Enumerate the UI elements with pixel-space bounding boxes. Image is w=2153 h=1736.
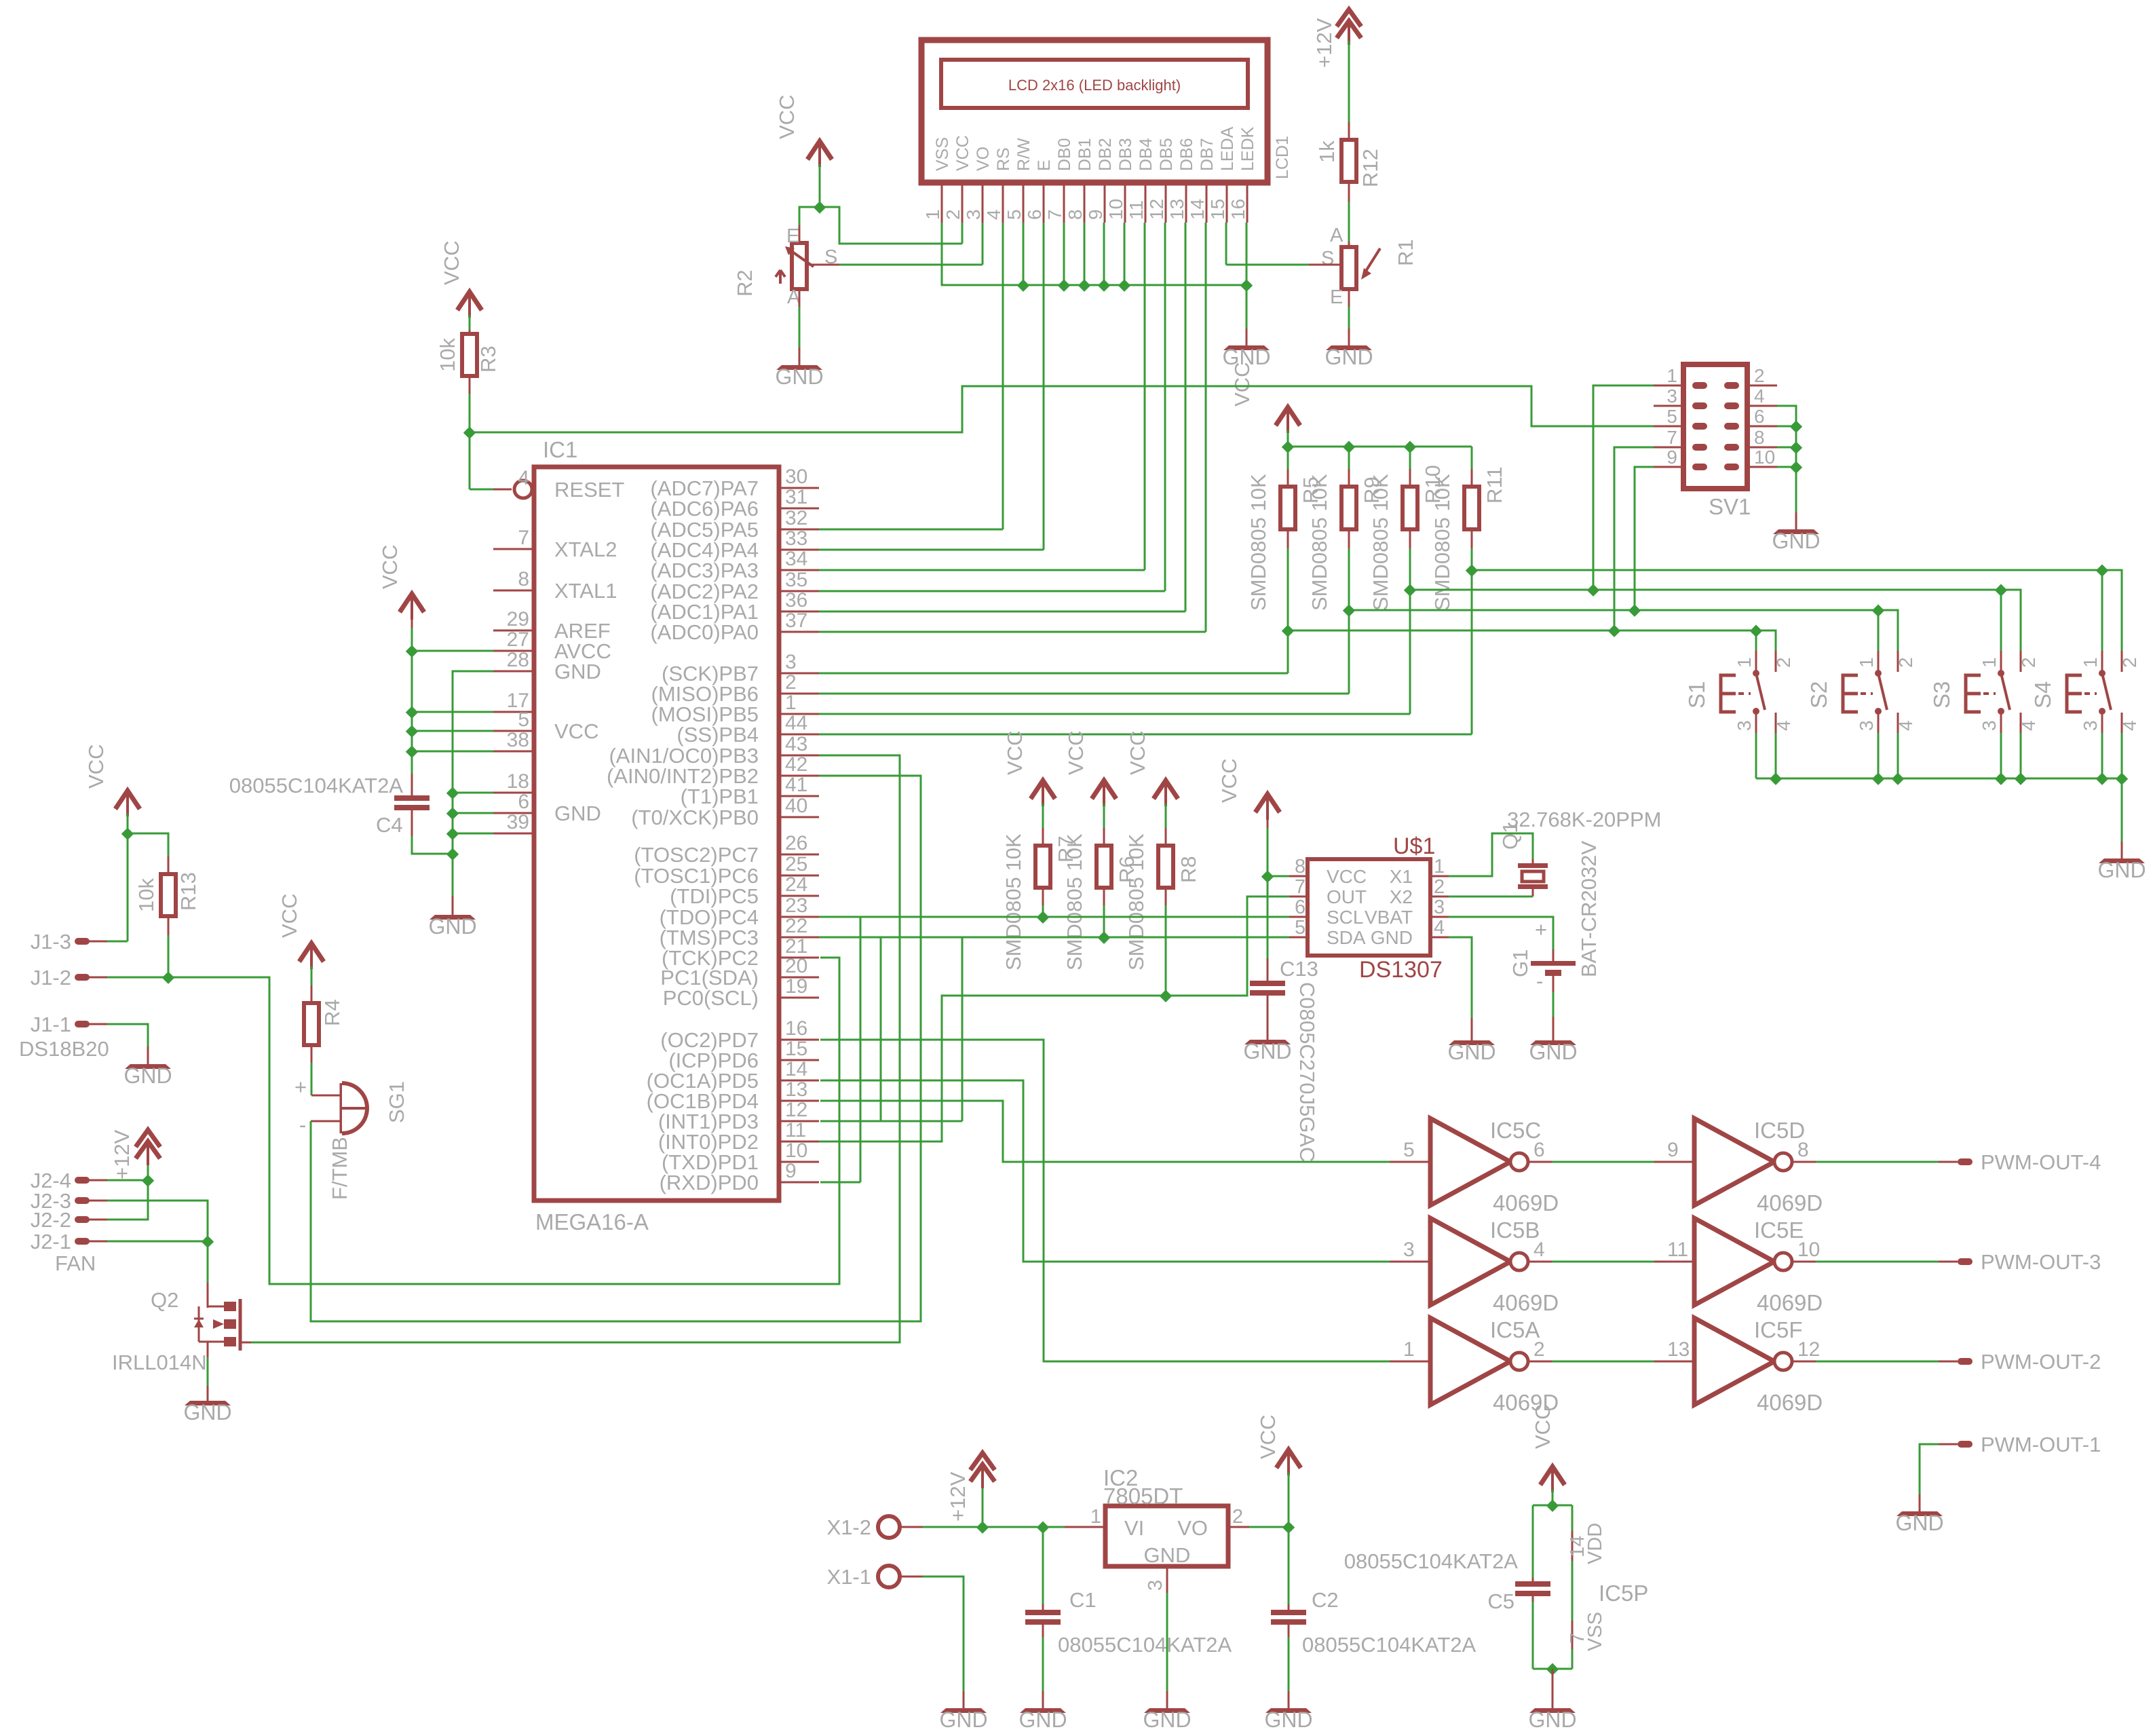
svg-text:GND: GND: [1144, 1543, 1191, 1567]
svg-text:3: 3: [1856, 720, 1877, 731]
svg-text:S4: S4: [2030, 681, 2055, 709]
svg-text:3: 3: [1403, 1239, 1415, 1261]
svg-text:4069D: 4069D: [1493, 1290, 1559, 1315]
svg-text:1: 1: [2080, 657, 2101, 668]
svg-text:DB3: DB3: [1116, 138, 1135, 171]
svg-text:24: 24: [785, 873, 807, 896]
svg-text:GND: GND: [1772, 529, 1820, 553]
svg-text:DB7: DB7: [1198, 138, 1217, 171]
svg-text:X1-2: X1-2: [827, 1515, 871, 1539]
svg-text:9: 9: [1667, 1139, 1679, 1161]
svg-text:1: 1: [1090, 1506, 1101, 1528]
svg-text:12: 12: [785, 1099, 807, 1121]
svg-text:6: 6: [1024, 209, 1045, 220]
svg-text:IRLL014N: IRLL014N: [112, 1351, 207, 1374]
svg-text:SDA: SDA: [1327, 927, 1366, 948]
svg-text:J1-2: J1-2: [31, 966, 71, 989]
svg-text:4: 4: [1434, 917, 1445, 939]
svg-text:Q2: Q2: [151, 1288, 178, 1312]
svg-text:8: 8: [518, 568, 529, 590]
svg-text:R3: R3: [476, 345, 500, 373]
svg-text:X1-1: X1-1: [827, 1565, 871, 1589]
svg-text:R11: R11: [1483, 466, 1506, 504]
svg-text:(TOSC2)PC7: (TOSC2)PC7: [634, 843, 759, 867]
svg-text:E: E: [786, 225, 799, 247]
svg-text:GND: GND: [939, 1707, 987, 1732]
svg-text:44: 44: [785, 712, 807, 734]
svg-text:9: 9: [1666, 447, 1677, 468]
svg-text:41: 41: [785, 774, 807, 796]
svg-text:E: E: [1330, 286, 1343, 308]
svg-text:5: 5: [1004, 209, 1025, 220]
svg-text:C5: C5: [1487, 1589, 1514, 1613]
svg-text:11: 11: [785, 1119, 806, 1141]
svg-text:GND: GND: [123, 1063, 172, 1088]
svg-text:7: 7: [1295, 876, 1306, 898]
svg-text:-: -: [299, 1113, 306, 1137]
svg-text:SMD0805 10K: SMD0805 10K: [1308, 474, 1331, 611]
svg-text:RESET: RESET: [554, 478, 624, 502]
svg-text:VBAT: VBAT: [1365, 907, 1413, 928]
svg-text:FAN: FAN: [55, 1251, 96, 1275]
svg-text:VCC: VCC: [378, 545, 402, 589]
svg-text:OUT: OUT: [1327, 886, 1367, 907]
svg-text:5: 5: [1295, 917, 1306, 939]
svg-text:+12V: +12V: [1312, 18, 1336, 68]
svg-text:28: 28: [507, 649, 529, 671]
svg-text:PWM-OUT-1: PWM-OUT-1: [1981, 1433, 2101, 1456]
svg-text:1: 1: [922, 209, 943, 220]
svg-text:23: 23: [785, 894, 807, 917]
svg-text:GND: GND: [1447, 1040, 1495, 1064]
svg-text:42: 42: [785, 753, 807, 776]
svg-text:25: 25: [785, 853, 807, 875]
svg-text:LEDK: LEDK: [1238, 126, 1257, 171]
svg-text:37: 37: [785, 609, 807, 632]
svg-text:DB2: DB2: [1096, 138, 1115, 171]
svg-text:S2: S2: [1806, 681, 1831, 709]
svg-text:4: 4: [2018, 720, 2039, 731]
svg-text:1: 1: [785, 692, 797, 714]
svg-text:SCL: SCL: [1327, 907, 1363, 928]
svg-text:6: 6: [1295, 897, 1306, 918]
svg-text:(T0/XCK)PB0: (T0/XCK)PB0: [631, 806, 759, 829]
svg-text:18: 18: [507, 770, 529, 793]
svg-text:(TDI)PC5: (TDI)PC5: [670, 884, 759, 908]
svg-text:3: 3: [1434, 897, 1445, 918]
svg-text:9: 9: [1085, 209, 1106, 220]
svg-text:DS18B20: DS18B20: [19, 1037, 109, 1061]
svg-text:IC5B: IC5B: [1490, 1218, 1540, 1243]
svg-text:J1-1: J1-1: [31, 1013, 71, 1036]
svg-text:8: 8: [1754, 427, 1765, 448]
svg-text:C13: C13: [1280, 957, 1318, 981]
svg-text:S1: S1: [1684, 681, 1709, 709]
svg-text:GND: GND: [1243, 1039, 1291, 1063]
svg-text:4069D: 4069D: [1757, 1190, 1823, 1215]
svg-text:VCC: VCC: [1327, 866, 1367, 887]
svg-text:3: 3: [1145, 1580, 1166, 1591]
svg-text:GND: GND: [1264, 1707, 1312, 1732]
svg-text:16: 16: [785, 1017, 807, 1040]
svg-text:VCC: VCC: [953, 135, 972, 171]
svg-text:R8: R8: [1177, 856, 1200, 883]
svg-text:DB1: DB1: [1075, 138, 1094, 171]
svg-text:1k: 1k: [1315, 140, 1339, 163]
svg-text:4: 4: [1895, 720, 1916, 731]
svg-text:15: 15: [1207, 199, 1228, 220]
svg-text:36: 36: [785, 589, 807, 611]
svg-text:7805DT: 7805DT: [1103, 1484, 1183, 1509]
svg-text:31: 31: [785, 486, 807, 508]
svg-text:SG1: SG1: [385, 1081, 408, 1123]
svg-text:3: 3: [1734, 720, 1755, 731]
svg-text:VI: VI: [1124, 1516, 1144, 1540]
svg-text:LCD 2x16 (LED backlight): LCD 2x16 (LED backlight): [1008, 77, 1181, 94]
svg-text:38: 38: [507, 729, 529, 751]
svg-text:2: 2: [1232, 1506, 1243, 1528]
svg-text:J1-3: J1-3: [31, 930, 71, 954]
svg-text:GND: GND: [1018, 1707, 1067, 1732]
svg-text:R7: R7: [1054, 835, 1078, 863]
svg-text:30: 30: [785, 466, 807, 488]
svg-text:2: 2: [942, 209, 964, 220]
svg-text:GND: GND: [1371, 927, 1413, 948]
svg-text:R/W: R/W: [1014, 138, 1033, 171]
svg-text:15: 15: [785, 1038, 807, 1060]
svg-text:3: 3: [2080, 720, 2101, 731]
svg-text:3: 3: [1666, 385, 1677, 407]
svg-text:GND: GND: [1528, 1707, 1576, 1732]
svg-text:14: 14: [785, 1058, 807, 1080]
svg-text:IC5D: IC5D: [1754, 1118, 1805, 1143]
svg-text:+12V: +12V: [946, 1471, 970, 1522]
svg-text:3: 3: [785, 651, 797, 673]
svg-text:VSS: VSS: [933, 137, 952, 171]
svg-text:XTAL1: XTAL1: [554, 579, 617, 603]
svg-text:GND: GND: [183, 1400, 231, 1424]
svg-text:SMD0805 10K: SMD0805 10K: [1246, 474, 1270, 611]
svg-text:GND: GND: [1895, 1511, 1943, 1535]
svg-text:DB5: DB5: [1157, 138, 1176, 171]
svg-text:IC5C: IC5C: [1490, 1118, 1541, 1143]
svg-text:26: 26: [785, 832, 807, 854]
svg-text:DB0: DB0: [1055, 138, 1074, 171]
svg-text:U$1: U$1: [1393, 833, 1435, 859]
svg-text:4: 4: [983, 209, 1004, 220]
svg-text:20: 20: [785, 955, 807, 977]
svg-text:1: 1: [1666, 365, 1677, 386]
svg-text:VO: VO: [974, 147, 993, 171]
svg-text:2: 2: [2018, 657, 2039, 668]
svg-text:+: +: [1535, 918, 1547, 941]
svg-text:19: 19: [785, 975, 807, 998]
svg-text:-: -: [1536, 969, 1543, 993]
svg-text:4069D: 4069D: [1757, 1390, 1823, 1415]
svg-text:VCC: VCC: [1003, 731, 1027, 775]
svg-text:VCC: VCC: [1126, 731, 1149, 775]
svg-text:10: 10: [785, 1139, 807, 1162]
svg-text:10k: 10k: [134, 878, 158, 912]
svg-text:PWM-OUT-2: PWM-OUT-2: [1981, 1350, 2101, 1374]
svg-text:4: 4: [518, 467, 529, 489]
svg-text:R2: R2: [733, 269, 757, 297]
svg-text:C0805C270J5GAC: C0805C270J5GAC: [1295, 982, 1319, 1162]
svg-text:VCC: VCC: [278, 894, 301, 938]
svg-text:32.768K-20PPM: 32.768K-20PPM: [1507, 808, 1661, 831]
svg-text:40: 40: [785, 795, 807, 817]
svg-text:4069D: 4069D: [1493, 1190, 1559, 1215]
svg-text:VCC: VCC: [775, 95, 799, 139]
svg-text:SMD0805 10K: SMD0805 10K: [1124, 833, 1148, 970]
svg-text:S: S: [1321, 248, 1334, 269]
svg-text:27: 27: [507, 628, 529, 651]
svg-text:2: 2: [1754, 365, 1765, 386]
svg-text:X2: X2: [1390, 886, 1413, 907]
svg-text:13: 13: [1166, 199, 1187, 220]
svg-text:R1: R1: [1394, 239, 1417, 266]
svg-text:22: 22: [785, 915, 807, 937]
svg-text:VCC: VCC: [1230, 362, 1254, 407]
svg-text:R12: R12: [1358, 149, 1382, 187]
svg-text:S3: S3: [1929, 681, 1954, 709]
svg-text:XTAL2: XTAL2: [554, 537, 617, 561]
svg-text:BAT-CR2032V: BAT-CR2032V: [1577, 841, 1601, 977]
svg-text:(ADC3)PA3: (ADC3)PA3: [650, 559, 759, 582]
svg-text:MEGA16-A: MEGA16-A: [535, 1209, 649, 1234]
svg-text:29: 29: [507, 608, 529, 630]
svg-text:34: 34: [785, 548, 807, 570]
svg-text:43: 43: [785, 733, 807, 755]
svg-text:10: 10: [1754, 447, 1775, 468]
svg-text:LEDA: LEDA: [1218, 126, 1237, 171]
svg-text:3: 3: [1979, 720, 2000, 731]
svg-text:GND: GND: [554, 660, 601, 683]
svg-text:GND: GND: [554, 801, 601, 825]
svg-text:PC0(SCL): PC0(SCL): [663, 986, 759, 1010]
svg-text:VCC: VCC: [440, 241, 463, 285]
svg-text:GND: GND: [1325, 345, 1373, 369]
svg-text:PWM-OUT-3: PWM-OUT-3: [1981, 1250, 2101, 1274]
svg-text:VCC: VCC: [84, 744, 108, 789]
svg-text:GND: GND: [2097, 858, 2146, 882]
svg-text:X1: X1: [1390, 866, 1413, 887]
svg-text:GND: GND: [1143, 1707, 1191, 1732]
svg-text:(ADC6)PA6: (ADC6)PA6: [650, 497, 759, 521]
svg-text:(T1)PB1: (T1)PB1: [681, 785, 759, 808]
svg-text:7: 7: [518, 527, 529, 549]
svg-text:(SS)PB4: (SS)PB4: [677, 723, 759, 747]
svg-text:33: 33: [785, 527, 807, 550]
svg-text:VDD: VDD: [1584, 1523, 1606, 1564]
svg-text:5: 5: [1666, 406, 1677, 427]
svg-text:10k: 10k: [436, 338, 459, 372]
svg-text:DB4: DB4: [1137, 138, 1156, 171]
svg-text:GND: GND: [428, 914, 476, 939]
svg-text:J2-2: J2-2: [31, 1208, 71, 1232]
svg-text:VCC: VCC: [554, 719, 598, 743]
svg-text:6: 6: [518, 791, 529, 813]
svg-text:DS1307: DS1307: [1359, 957, 1443, 983]
svg-text:4: 4: [2119, 720, 2140, 731]
svg-text:13: 13: [785, 1078, 807, 1101]
svg-text:2: 2: [1434, 876, 1445, 898]
svg-text:C1: C1: [1069, 1588, 1097, 1612]
svg-text:5: 5: [1403, 1139, 1415, 1161]
svg-text:SV1: SV1: [1709, 494, 1751, 519]
svg-text:(ADC0)PA0: (ADC0)PA0: [650, 620, 759, 644]
svg-text:8: 8: [1065, 209, 1086, 220]
svg-text:VCC: VCC: [1064, 731, 1088, 775]
svg-text:4: 4: [1773, 720, 1794, 731]
svg-text:2: 2: [785, 671, 797, 694]
svg-text:08055C104KAT2A: 08055C104KAT2A: [229, 774, 404, 797]
svg-text:SMD0805 10K: SMD0805 10K: [1002, 833, 1025, 970]
svg-text:VCC: VCC: [1217, 759, 1241, 803]
svg-text:16: 16: [1227, 199, 1249, 220]
svg-text:DB6: DB6: [1177, 138, 1196, 171]
svg-text:4069D: 4069D: [1757, 1290, 1823, 1315]
svg-text:7: 7: [1044, 209, 1065, 220]
svg-text:13: 13: [1667, 1338, 1690, 1361]
svg-text:6: 6: [1754, 406, 1765, 427]
svg-text:+: +: [294, 1075, 307, 1099]
svg-text:A: A: [1330, 225, 1344, 246]
svg-text:08055C104KAT2A: 08055C104KAT2A: [1344, 1549, 1519, 1573]
svg-text:IC1: IC1: [543, 437, 577, 462]
svg-text:R13: R13: [176, 872, 200, 911]
svg-text:2: 2: [1773, 657, 1794, 668]
svg-text:R6: R6: [1115, 856, 1139, 883]
svg-text:3: 3: [963, 209, 984, 220]
svg-text:G1: G1: [1508, 949, 1532, 977]
svg-text:PWM-OUT-4: PWM-OUT-4: [1981, 1150, 2101, 1174]
svg-text:1: 1: [1403, 1338, 1415, 1361]
svg-text:11: 11: [1126, 200, 1147, 220]
svg-text:RS: RS: [994, 147, 1013, 171]
svg-text:32: 32: [785, 507, 807, 529]
svg-text:VCC: VCC: [1256, 1415, 1280, 1459]
svg-text:1: 1: [1856, 657, 1877, 668]
svg-text:5: 5: [518, 709, 529, 731]
svg-text:VCC: VCC: [1531, 1405, 1555, 1449]
svg-text:39: 39: [507, 811, 529, 833]
svg-text:11: 11: [1667, 1239, 1688, 1261]
svg-text:J2-1: J2-1: [31, 1230, 71, 1253]
svg-text:10: 10: [1105, 199, 1126, 220]
svg-text:35: 35: [785, 569, 807, 591]
svg-text:LCD1: LCD1: [1273, 136, 1292, 179]
svg-text:C4: C4: [376, 813, 403, 837]
svg-text:+12V: +12V: [110, 1129, 134, 1180]
svg-text:IC5E: IC5E: [1754, 1218, 1804, 1243]
svg-text:08055C104KAT2A: 08055C104KAT2A: [1058, 1633, 1232, 1657]
svg-text:1: 1: [1434, 856, 1445, 878]
svg-text:1: 1: [1979, 657, 2000, 668]
svg-text:C2: C2: [1312, 1588, 1339, 1612]
svg-text:9: 9: [785, 1160, 797, 1182]
svg-text:R4: R4: [320, 999, 344, 1026]
svg-text:IC5P: IC5P: [1599, 1581, 1648, 1606]
svg-text:4: 4: [1754, 385, 1765, 407]
svg-text:12: 12: [1146, 199, 1167, 220]
svg-text:7: 7: [1666, 427, 1677, 448]
svg-text:08055C104KAT2A: 08055C104KAT2A: [1302, 1633, 1476, 1657]
svg-text:(RXD)PD0: (RXD)PD0: [660, 1171, 759, 1194]
svg-text:SMD0805 10K: SMD0805 10K: [1369, 474, 1392, 611]
svg-text:VSS: VSS: [1584, 1612, 1606, 1651]
svg-text:14: 14: [1187, 199, 1208, 220]
svg-text:IC5F: IC5F: [1754, 1317, 1803, 1342]
svg-text:8: 8: [1295, 856, 1306, 878]
svg-text:1: 1: [1734, 657, 1755, 668]
svg-text:F/TMB: F/TMB: [328, 1137, 351, 1200]
svg-text:IC5A: IC5A: [1490, 1317, 1540, 1342]
svg-text:E: E: [1035, 159, 1054, 171]
svg-text:2: 2: [2119, 657, 2140, 668]
svg-text:GND: GND: [1529, 1040, 1577, 1064]
svg-text:GND: GND: [775, 364, 823, 389]
svg-text:VO: VO: [1177, 1516, 1208, 1540]
svg-text:2: 2: [1895, 657, 1916, 668]
